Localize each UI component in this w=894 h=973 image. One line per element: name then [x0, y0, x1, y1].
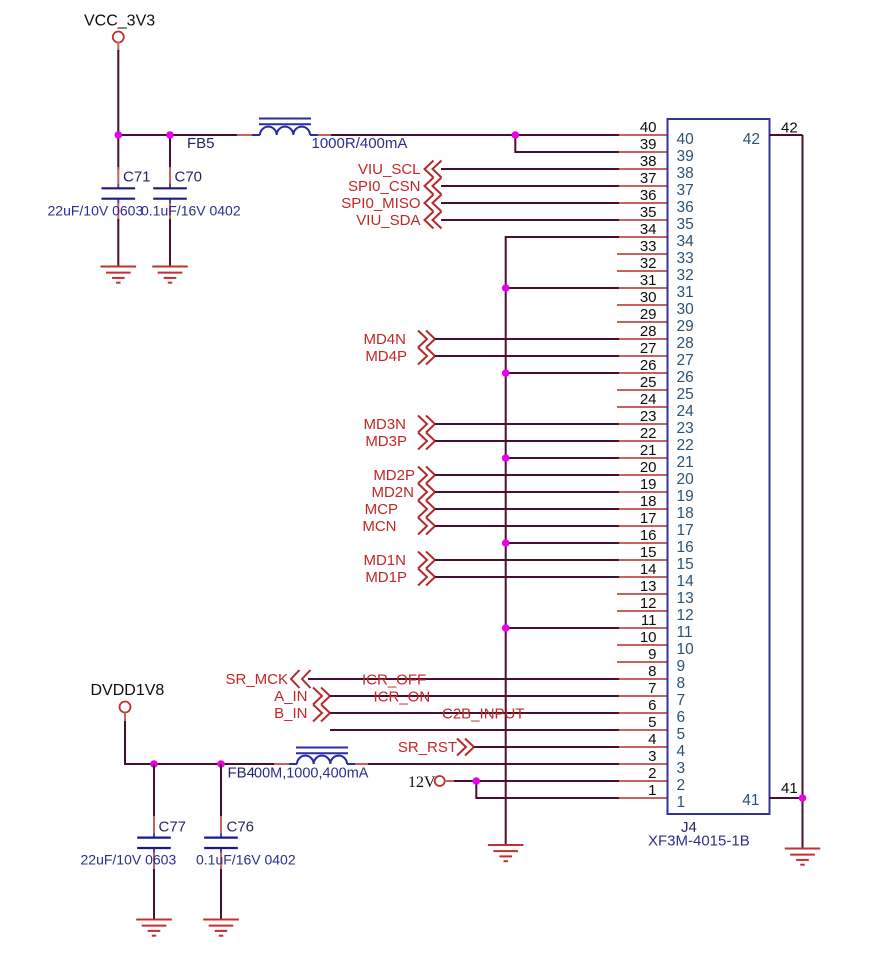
svg-text:10: 10 [640, 629, 657, 646]
junction GND bus pin 31 [502, 284, 510, 292]
svg-text:26: 26 [677, 369, 694, 386]
J4 pin 37 stub [617, 185, 668, 187]
svg-text:22uF/10V 0603: 22uF/10V 0603 [48, 203, 144, 219]
svg-text:ICR_OFF: ICR_OFF [362, 672, 426, 689]
C71 bottom pin stub [117, 203, 119, 221]
svg-text:34: 34 [640, 221, 657, 238]
12V pin stub [445, 780, 456, 782]
svg-text:30: 30 [677, 301, 695, 318]
power symbol 12V circle [435, 776, 445, 786]
port chevron MCP [418, 501, 435, 518]
svg-text:8: 8 [648, 663, 656, 680]
svg-text:00M,1000,400mA: 00M,1000,400mA [254, 766, 369, 782]
port chevron VIU_SDA [425, 212, 442, 229]
C76 bottom pin stub [220, 852, 222, 871]
connector J4 body [668, 119, 770, 814]
svg-text:30: 30 [640, 289, 657, 306]
svg-text:12: 12 [640, 595, 657, 612]
wire C77 bottom to ground [153, 869, 155, 920]
junction GND bus pin 21 [502, 454, 510, 462]
svg-text:36: 36 [677, 199, 694, 216]
svg-text:SR_RST: SR_RST [398, 739, 457, 756]
svg-text:7: 7 [677, 692, 686, 709]
wire C71 bottom to ground [117, 219, 119, 267]
svg-text:24: 24 [677, 403, 695, 420]
J4 pin 3 stub [617, 763, 668, 765]
J4 pin 42 stub [770, 134, 803, 136]
wire DVDD1V8 down and right [125, 721, 154, 764]
svg-text:29: 29 [640, 306, 657, 323]
svg-text:MD1P: MD1P [365, 569, 407, 586]
svg-text:41: 41 [781, 780, 798, 797]
svg-text:29: 29 [677, 318, 694, 335]
svg-text:FB4: FB4 [228, 765, 256, 782]
J4 pin 4 stub [617, 746, 668, 748]
J4 pin 12 stub [617, 610, 668, 612]
J4 pin 5 stub [617, 729, 668, 731]
svg-text:25: 25 [677, 386, 694, 403]
svg-text:14: 14 [677, 573, 695, 590]
svg-text:16: 16 [640, 527, 657, 544]
svg-text:SPI0_MISO: SPI0_MISO [341, 195, 420, 212]
junction C70 [166, 131, 174, 139]
ground below C70 [152, 267, 188, 283]
svg-text:20: 20 [677, 471, 695, 488]
wire MD4P to pin 27 [435, 355, 619, 357]
svg-text:15: 15 [677, 556, 694, 573]
svg-text:C2B_INPUT: C2B_INPUT [442, 706, 525, 723]
svg-text:12: 12 [677, 607, 694, 624]
ferrite bead FB5 [252, 119, 318, 136]
svg-text:6: 6 [677, 709, 686, 726]
svg-text:36: 36 [640, 187, 657, 204]
svg-text:SR_MCK: SR_MCK [225, 671, 288, 688]
svg-text:33: 33 [677, 250, 694, 267]
J4 pin 6 stub [617, 712, 668, 714]
junction FB5 out / pin 39 [512, 131, 520, 139]
svg-text:1000R/400mA: 1000R/400mA [312, 135, 408, 152]
svg-text:1: 1 [648, 782, 656, 799]
svg-text:4: 4 [648, 731, 656, 748]
wire MD2N to pin 19 [435, 491, 619, 493]
ground below C71 [101, 267, 137, 283]
svg-text:42: 42 [743, 131, 760, 148]
J4 pin 36 stub [617, 202, 668, 204]
svg-text:2: 2 [648, 765, 656, 782]
svg-text:37: 37 [640, 170, 657, 187]
svg-text:9: 9 [677, 658, 686, 675]
wire right rail vertical [802, 135, 804, 849]
svg-text:25: 25 [640, 374, 657, 391]
J4 pin 31 stub [617, 287, 668, 289]
wire C76 bottom to ground [220, 869, 222, 920]
FB5 right pin stub [318, 134, 333, 136]
J4 pin 14 stub [617, 576, 668, 578]
svg-text:27: 27 [677, 352, 694, 369]
J4 pin 22 stub [617, 440, 668, 442]
wire FB4 to pin 3 [368, 763, 619, 765]
FB4 right pin stub [355, 763, 370, 765]
svg-text:23: 23 [677, 420, 694, 437]
wire C77 node to C76 node [154, 763, 221, 765]
J4 pin 15 stub [617, 559, 668, 561]
J4 pin 19 stub [617, 491, 668, 493]
wire MCN to pin 17 [435, 525, 619, 527]
J4 pin 30 stub [617, 304, 668, 306]
J4 pin 7 stub [617, 695, 668, 697]
svg-text:MCP: MCP [365, 501, 398, 518]
svg-text:MD4N: MD4N [363, 331, 406, 348]
svg-text:42: 42 [781, 120, 798, 137]
wire C76 node to FB4 [221, 763, 290, 765]
wire FB5 to junction [331, 134, 515, 136]
svg-text:2: 2 [677, 777, 686, 794]
J4 pin 28 stub [617, 338, 668, 340]
J4 pin 11 stub [617, 627, 668, 629]
wire 12V junction down to pin 1 [476, 781, 619, 798]
junction GND bus pin 11 [502, 624, 510, 632]
port chevron MD2N [418, 484, 435, 501]
J4 pin 8 stub [617, 678, 668, 680]
J4 pin 27 stub [617, 355, 668, 357]
svg-text:26: 26 [640, 357, 657, 374]
wire pin 42 to right rail [770, 134, 803, 136]
svg-text:40: 40 [640, 119, 657, 136]
C76 top pin stub [220, 816, 222, 833]
svg-text:15: 15 [640, 544, 657, 561]
port chevron MD1P [418, 569, 435, 586]
J4 pin 33 stub [617, 253, 668, 255]
svg-text:0.1uF/16V 0402: 0.1uF/16V 0402 [196, 852, 296, 868]
wire MD1N to pin 15 [435, 559, 619, 561]
wire C70 node to FB5 [170, 134, 253, 136]
J4 pin 20 stub [617, 474, 668, 476]
svg-text:SPI0_CSN: SPI0_CSN [348, 178, 421, 195]
wire MD2P to pin 20 [435, 474, 619, 476]
port chevron B_IN [313, 705, 330, 722]
port chevron VIU_SCL [425, 161, 442, 178]
port chevron MD3P [418, 433, 435, 450]
svg-text:9: 9 [648, 646, 656, 663]
svg-text:A_IN: A_IN [274, 688, 307, 705]
wire MD1P to pin 14 [435, 576, 619, 578]
svg-text:VIU_SDA: VIU_SDA [356, 212, 420, 229]
wire SPI0_MISO to pin 36 [441, 202, 619, 204]
svg-text:41: 41 [742, 792, 759, 809]
svg-text:38: 38 [677, 165, 694, 182]
svg-text:13: 13 [640, 578, 657, 595]
svg-text:3: 3 [677, 760, 686, 777]
svg-text:39: 39 [640, 136, 657, 153]
FB5 left pin stub [237, 134, 252, 136]
port chevron MD1N [418, 552, 435, 569]
wire B_IN to pin 6 [330, 712, 619, 714]
svg-text:MD3N: MD3N [363, 416, 406, 433]
C77 bottom pin stub [153, 852, 155, 871]
wire SR_MCK to pin 8 [308, 678, 619, 680]
wire MCP to pin 18 [435, 508, 619, 510]
wire node to C70 top [169, 135, 171, 170]
svg-text:20: 20 [640, 459, 657, 476]
J4 pin 41 stub [770, 797, 803, 799]
svg-text:18: 18 [640, 493, 657, 510]
wire GND bus to pin 26 [506, 372, 619, 374]
svg-text:27: 27 [640, 340, 657, 357]
svg-text:16: 16 [677, 539, 694, 556]
wire GND bus to pin 21 [506, 457, 619, 459]
svg-text:12V: 12V [408, 774, 436, 791]
wire GND bus pin 34 branch [506, 237, 619, 845]
svg-text:10: 10 [677, 641, 695, 658]
svg-text:11: 11 [677, 624, 693, 641]
J4 pin 21 stub [617, 457, 668, 459]
junction GND bus pin 26 [502, 369, 510, 377]
junction C77 [150, 760, 158, 768]
wire node to C77 top [153, 764, 155, 820]
wire pin 41 to right rail [770, 797, 803, 799]
J4 pin 23 stub [617, 423, 668, 425]
port chevron SPI0_MISO [425, 195, 442, 212]
wire C70 bottom to ground [169, 219, 171, 267]
svg-text:VCC_3V3: VCC_3V3 [84, 13, 155, 30]
port chevron SPI0_CSN [425, 178, 442, 195]
svg-text:1: 1 [677, 794, 686, 811]
junction pin 41 / right rail [799, 794, 807, 802]
J4 pin 9 stub [617, 661, 668, 663]
J4 pin 24 stub [617, 406, 668, 408]
svg-text:39: 39 [677, 148, 694, 165]
wire VCC_3V3 vertical [117, 50, 119, 135]
svg-text:31: 31 [640, 272, 657, 289]
capacitor C76 [204, 833, 238, 852]
svg-text:MD3P: MD3P [365, 433, 407, 450]
junction C76 [217, 760, 225, 768]
wire SR_RST to pin 4 [474, 746, 619, 748]
power symbol DVDD1V8 circle [120, 702, 131, 713]
ferrite bead FB4 [289, 748, 355, 765]
svg-text:34: 34 [677, 233, 695, 250]
wire GND bus to pin 16 [506, 542, 619, 544]
svg-text:MD2P: MD2P [373, 467, 415, 484]
svg-text:28: 28 [640, 323, 657, 340]
J4 pin 13 stub [617, 593, 668, 595]
J4 pin 29 stub [617, 321, 668, 323]
J4 pin 1 stub [617, 797, 668, 799]
svg-text:13: 13 [677, 590, 694, 607]
svg-text:17: 17 [640, 510, 657, 527]
J4 pin 38 stub [617, 168, 668, 170]
power pin stub DVDD1V8 [124, 713, 126, 724]
svg-text:0.1uF/16V 0402: 0.1uF/16V 0402 [141, 203, 241, 219]
J4 pin 34 stub [617, 236, 668, 238]
wire GND bus to pin 31 [506, 287, 619, 289]
port chevron MD2P [418, 467, 435, 484]
power pin stub VCC_3V3 [117, 42, 119, 52]
svg-text:19: 19 [677, 488, 694, 505]
svg-text:MCN: MCN [362, 518, 396, 535]
J4 pin 25 stub [617, 389, 668, 391]
capacitor C70 [153, 184, 187, 203]
svg-text:35: 35 [640, 204, 657, 221]
wire SPI0_CSN to pin 37 [441, 185, 619, 187]
wire to pin 5 [330, 729, 619, 731]
wire GND bus to pin 11 [506, 627, 619, 629]
svg-text:38: 38 [640, 153, 657, 170]
svg-text:5: 5 [648, 714, 656, 731]
J4 pin 17 stub [617, 525, 668, 527]
svg-text:22: 22 [677, 437, 694, 454]
svg-text:C70: C70 [175, 169, 203, 186]
J4 pin 26 stub [617, 372, 668, 374]
svg-text:FB5: FB5 [187, 135, 215, 152]
svg-text:4: 4 [677, 743, 686, 760]
svg-text:MD1N: MD1N [363, 552, 406, 569]
wire MD3N to pin 23 [435, 423, 619, 425]
port chevron MD4N [418, 331, 435, 348]
svg-text:18: 18 [677, 505, 694, 522]
svg-text:21: 21 [677, 454, 694, 471]
svg-text:5: 5 [677, 726, 686, 743]
J4 pin 40 stub [617, 134, 668, 136]
wire VIU_SDA to pin 35 [441, 219, 619, 221]
C70 bottom pin stub [169, 203, 171, 221]
svg-text:DVDD1V8: DVDD1V8 [91, 682, 165, 699]
ground below C77 [136, 920, 172, 936]
ground right rail [785, 849, 821, 865]
junction GND bus pin 16 [502, 539, 510, 547]
svg-text:B_IN: B_IN [274, 705, 307, 722]
svg-text:33: 33 [640, 238, 657, 255]
J4 pin 18 stub [617, 508, 668, 510]
C77 top pin stub [153, 816, 155, 833]
svg-text:22: 22 [640, 425, 657, 442]
svg-text:23: 23 [640, 408, 657, 425]
svg-text:22uF/10V 0603: 22uF/10V 0603 [81, 852, 177, 868]
J4 pin 10 stub [617, 644, 668, 646]
power symbol VCC_3V3 circle [113, 32, 124, 43]
svg-text:XF3M-4015-1B: XF3M-4015-1B [648, 833, 750, 850]
svg-text:32: 32 [640, 255, 657, 272]
C71 top pin stub [117, 167, 119, 184]
J4 pin 39 stub [617, 151, 668, 153]
svg-text:7: 7 [648, 680, 656, 697]
port chevron SR_RST [457, 739, 474, 756]
svg-text:C76: C76 [227, 819, 255, 836]
svg-text:31: 31 [677, 284, 694, 301]
svg-text:40: 40 [677, 131, 695, 148]
junction 12V [473, 777, 481, 785]
wire MD3P to pin 22 [435, 440, 619, 442]
J4 pin 32 stub [617, 270, 668, 272]
wire 12V to junction [454, 780, 476, 782]
junction VCC_3V3 / C71 [115, 131, 123, 139]
FB4 left pin stub [274, 763, 289, 765]
wire VCC node to C70 node [118, 134, 170, 136]
port chevron MD3N [418, 416, 435, 433]
ground below C76 [203, 920, 239, 936]
C70 top pin stub [169, 167, 171, 184]
svg-text:37: 37 [677, 182, 694, 199]
svg-text:MD2N: MD2N [371, 484, 414, 501]
svg-text:24: 24 [640, 391, 657, 408]
ground GND bus bottom [488, 845, 524, 861]
svg-text:11: 11 [641, 612, 657, 629]
svg-text:28: 28 [677, 335, 694, 352]
wire node to C76 top [220, 764, 222, 820]
svg-text:6: 6 [648, 697, 656, 714]
svg-text:21: 21 [640, 442, 657, 459]
port chevron A_IN [313, 688, 330, 705]
port chevron MCN [418, 518, 435, 535]
svg-text:17: 17 [677, 522, 694, 539]
svg-text:3: 3 [648, 748, 656, 765]
wire node to C71 top [117, 135, 119, 170]
wire A_IN to pin 7 [330, 695, 619, 697]
svg-text:19: 19 [640, 476, 657, 493]
svg-text:C71: C71 [123, 169, 151, 186]
port chevron MD4P [418, 348, 435, 365]
wire MD4N to pin 28 [435, 338, 619, 340]
J4 pin 2 stub [617, 780, 668, 782]
wire VIU_SCL to pin 38 [441, 168, 619, 170]
svg-text:35: 35 [677, 216, 694, 233]
wire 12V junction to pin 2 [476, 780, 619, 782]
svg-text:8: 8 [677, 675, 686, 692]
wire junction down to pin 39 [515, 135, 619, 152]
svg-text:14: 14 [640, 561, 657, 578]
svg-text:VIU_SCL: VIU_SCL [358, 161, 421, 178]
J4 pin 16 stub [617, 542, 668, 544]
svg-text:ICR_ON: ICR_ON [374, 689, 431, 706]
wire junction to pin 40 [515, 134, 619, 136]
port chevron SR_MCK [291, 670, 311, 688]
capacitor C77 [137, 833, 171, 852]
svg-text:32: 32 [677, 267, 694, 284]
capacitor C71 [102, 184, 136, 203]
svg-text:MD4P: MD4P [365, 348, 407, 365]
J4 pin 35 stub [617, 219, 668, 221]
svg-text:C77: C77 [159, 819, 187, 836]
